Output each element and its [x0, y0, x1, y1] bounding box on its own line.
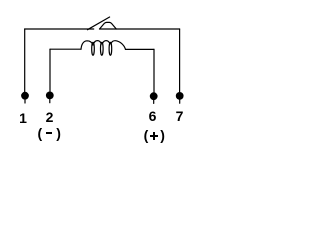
terminal pin 1 dot [21, 92, 29, 103]
pin number 6 [145, 109, 160, 123]
pin number 1 [16, 111, 31, 125]
terminal pin 7 dot [176, 92, 184, 103]
wire inner-left vertical (to pin 2) [49, 49, 51, 93]
polarity label ( - ) for pin 2 : left paren [38, 126, 43, 140]
polarity label (+) plus vertical bar [153, 132, 156, 141]
wire inner-right vertical (to pin 6) [153, 49, 155, 93]
wire inner-left horizontal (pin 2 to coil) [50, 48, 81, 50]
terminal pin 2 dot [46, 92, 54, 103]
polarity label (+) for pin 6 : left paren [144, 128, 149, 142]
terminal pin 6 dot [150, 92, 158, 103]
wire inner-right horizontal (coil to pin 6) [126, 48, 155, 50]
polarity label (+) plus horizontal bar [150, 135, 158, 138]
wire outer-left vertical (to pin 1) [24, 29, 26, 93]
pin number 7 [172, 109, 187, 123]
inductor L1 relay coil [81, 41, 126, 56]
wire top-right horizontal (switch to right side) [100, 28, 180, 30]
polarity label ( - ) right paren [56, 126, 61, 140]
wire top-left horizontal (pin 7 side to switch) [25, 28, 94, 30]
switch S1 blade (open contact) [88, 17, 110, 30]
switch S1 stationary contact hump [100, 22, 117, 29]
pin number 2 [42, 110, 57, 124]
polarity label (+) right paren [160, 128, 165, 142]
polarity label ( - ) minus dash [46, 132, 52, 135]
wire outer-right vertical (to pin 7) [179, 29, 181, 93]
